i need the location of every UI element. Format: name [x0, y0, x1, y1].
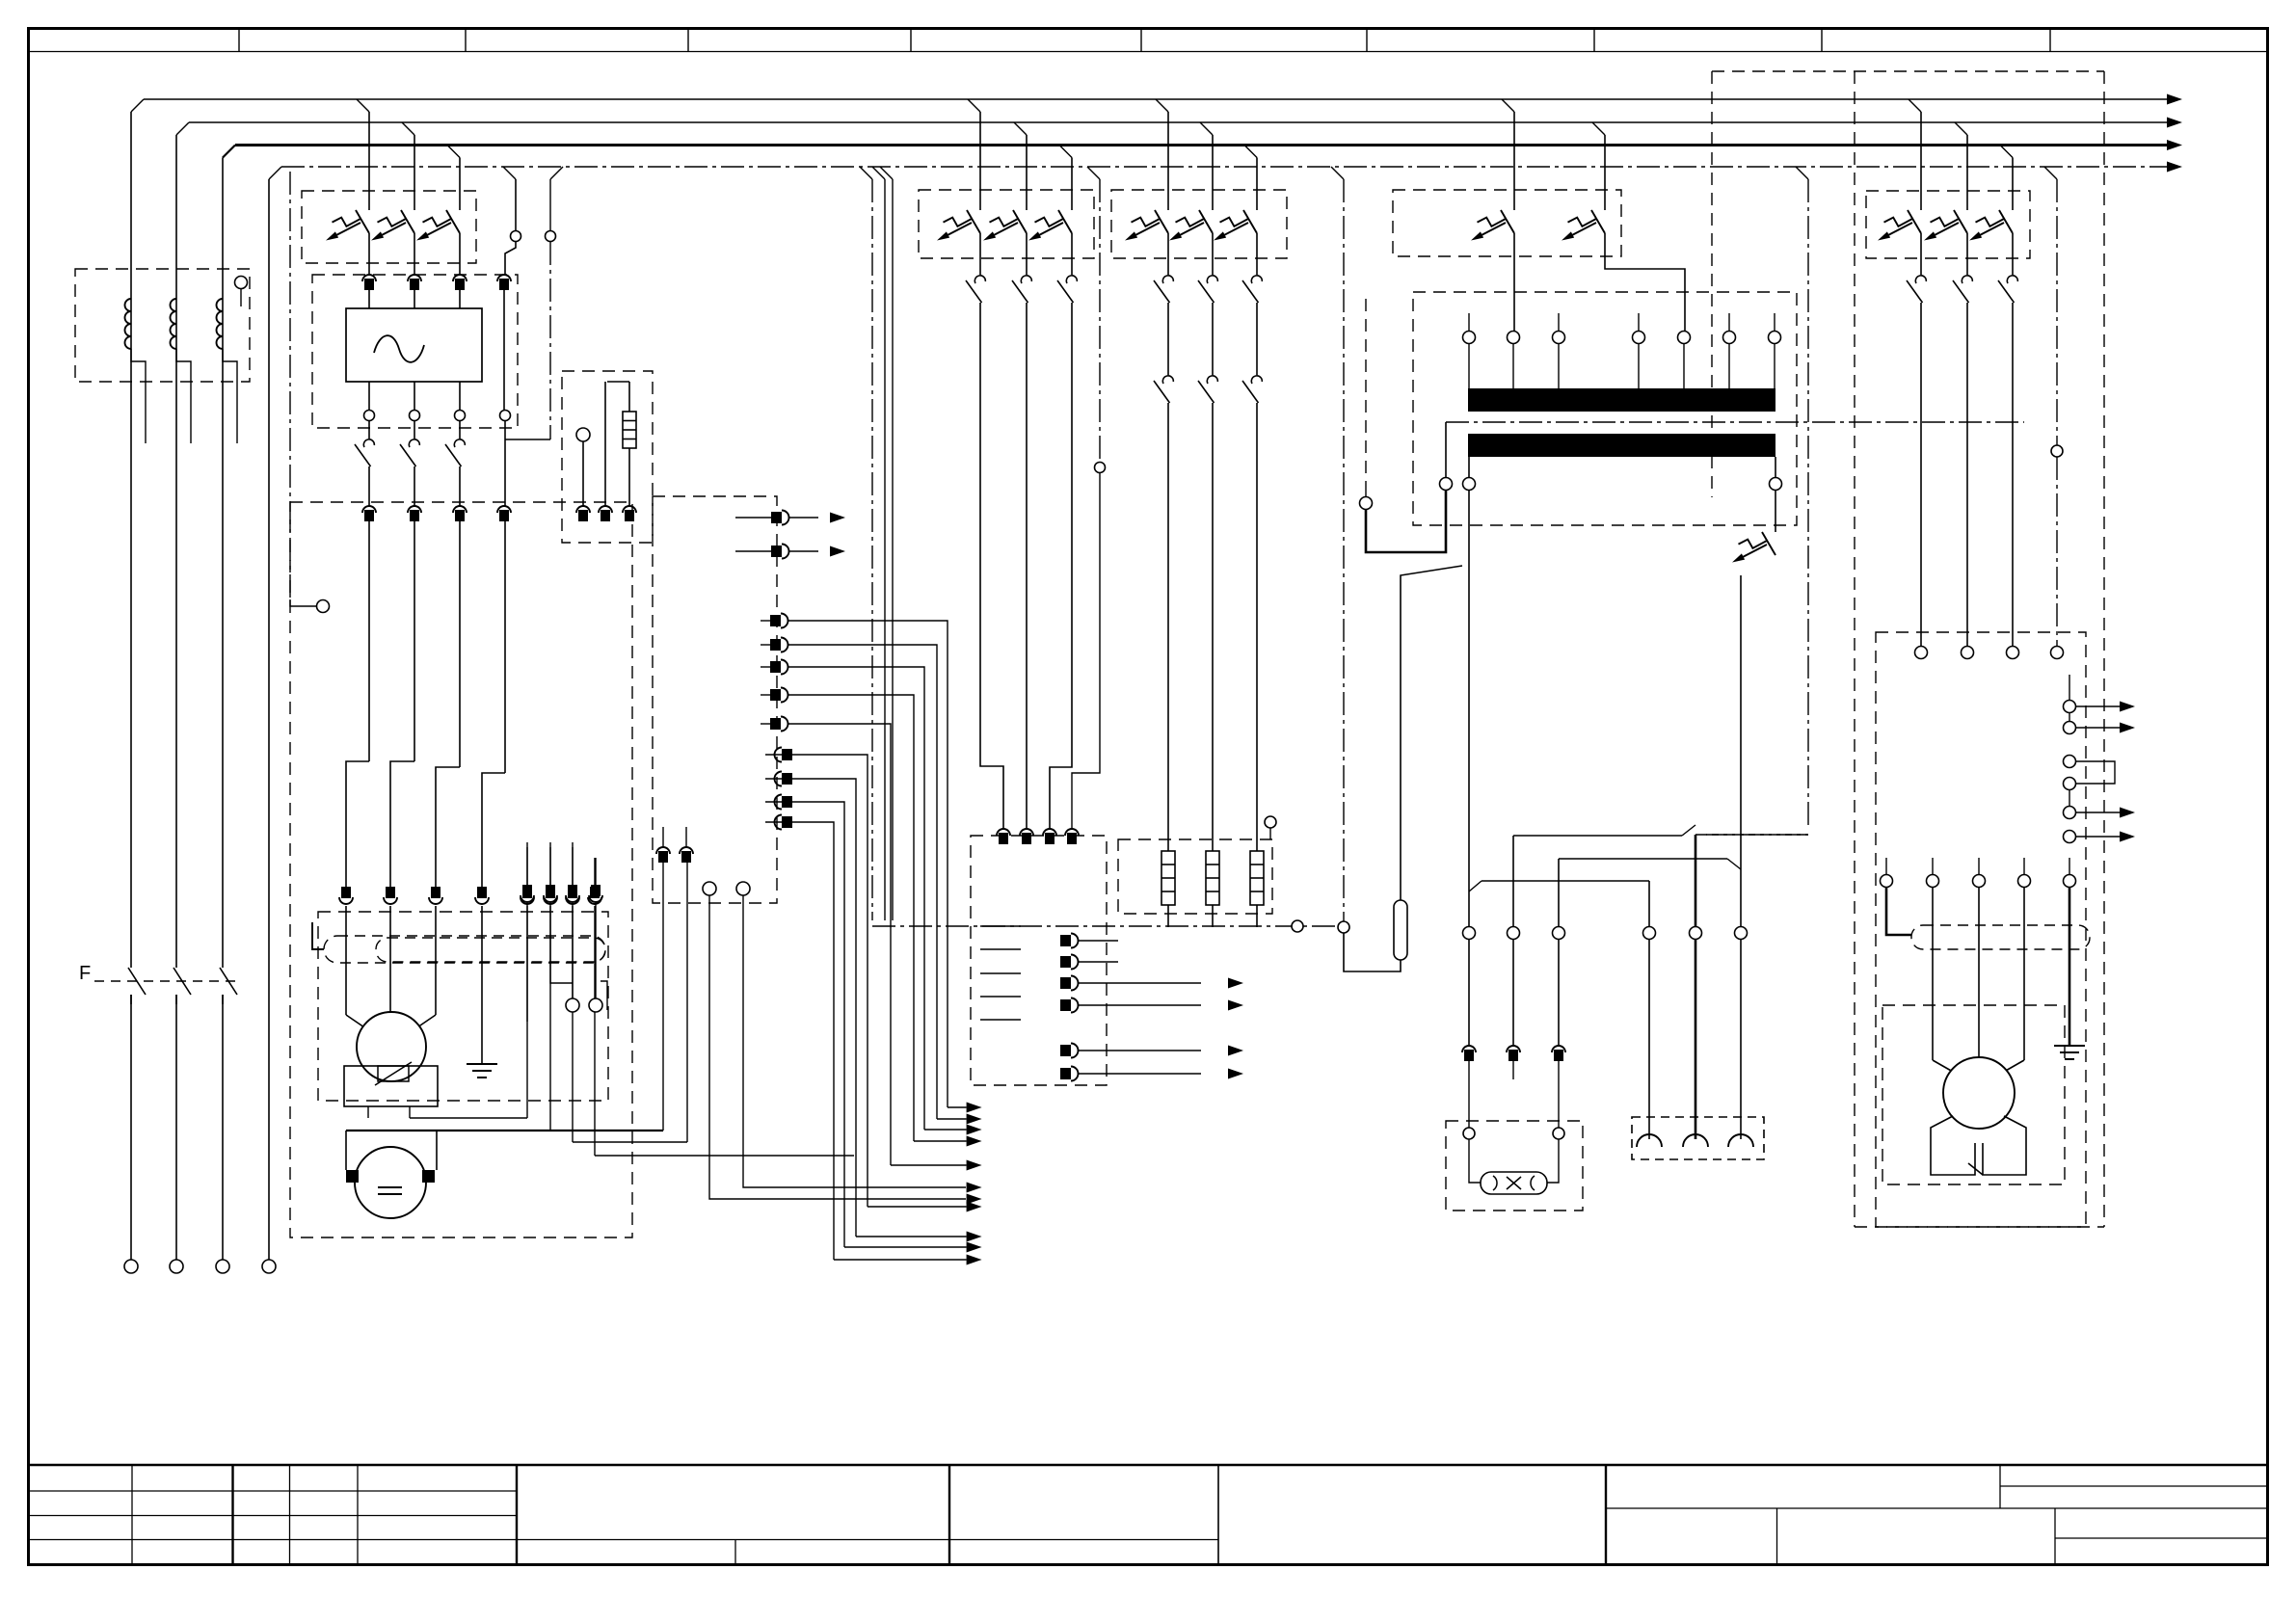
circle x1394	[1338, 921, 1349, 933]
terminal X1-2	[408, 506, 421, 513]
bar circle wire 3	[1558, 344, 1560, 389]
bar circle wire 1	[1468, 344, 1470, 389]
CT secondary wiring	[131, 349, 146, 443]
CT coil TA3	[217, 299, 223, 311]
wire KM1-1 out	[368, 466, 370, 506]
lamp circle R	[1553, 1128, 1564, 1139]
bar circle wire 5	[1683, 344, 1685, 389]
N branch x571 lower	[549, 242, 551, 439]
up terminal D1	[656, 847, 670, 854]
screen capsule 2 (dashed)	[376, 938, 605, 962]
wire KM6-3 down	[2012, 303, 2014, 646]
bundle arrow y1161	[967, 1114, 982, 1125]
long wire 1524	[1468, 491, 1470, 927]
switch F linkage (dashed)	[94, 980, 241, 982]
bar circle 4	[1633, 332, 1645, 344]
wire R2 feed	[1212, 403, 1214, 851]
motor wire 1	[1932, 888, 1934, 1060]
M2 frame wires	[345, 1131, 347, 1170]
wire QF6-2	[1966, 233, 1968, 275]
breaker QF2-2	[1013, 210, 1027, 233]
ctrl out arrow 3	[1228, 978, 1243, 989]
bundle terminal C1	[782, 749, 792, 760]
breaker QF4-2	[1591, 210, 1605, 233]
lamp stub mid	[1512, 1061, 1514, 1079]
wire QF3-2 mid	[1212, 303, 1214, 375]
bundle wire B4	[788, 695, 914, 1141]
terminal XC-2	[599, 506, 612, 513]
wire D1 route	[662, 863, 664, 1131]
centre line x301 (dash-dot)	[289, 172, 291, 599]
wire QF3-2	[1212, 233, 1214, 275]
wire KM2-2 route	[1026, 303, 1028, 829]
DC motor brush right	[422, 1170, 435, 1183]
bar stub 4	[1728, 313, 1730, 331]
bus bar 2 (black)	[1468, 434, 1775, 457]
wire feeder L1 vertical	[130, 112, 132, 968]
wire below F2	[175, 995, 177, 1260]
centre line x1394 dash-dot	[1331, 167, 1344, 179]
circle bar2-right	[1770, 478, 1782, 491]
XD wire 1	[526, 904, 528, 1022]
U1 sine symbol	[374, 335, 424, 362]
wire to ground	[481, 906, 483, 1064]
wire XD-6	[549, 906, 551, 1131]
vfd out circle 2	[1927, 875, 1939, 888]
lower terminal XD-4	[591, 885, 601, 896]
tap L3->QF2	[1059, 146, 1072, 158]
circle row 1617	[1553, 927, 1565, 940]
circle N right	[2051, 445, 2063, 457]
vfd in circle 2	[1962, 647, 1974, 659]
CT group dashed box	[75, 269, 250, 382]
bundle arrow shaft y1161	[937, 1118, 967, 1120]
io inter stubs	[2069, 712, 2070, 722]
bundle terminal C2	[782, 773, 792, 785]
XD circle 4	[589, 998, 602, 1012]
dash-dot y866 right	[1695, 834, 1808, 836]
CT coil TA1	[125, 299, 131, 311]
junction v 1617	[1558, 859, 1560, 927]
wire R3 feed	[1256, 403, 1258, 851]
terminal XC-3	[623, 506, 636, 513]
connector wire 3	[1740, 939, 1742, 1139]
breaker QF4-1	[1501, 210, 1514, 233]
motor terminal 7	[568, 887, 577, 898]
wire U1-3 down	[459, 290, 461, 308]
junction h1	[1513, 835, 1682, 837]
XD wire 3	[572, 904, 574, 998]
bus L2 arrow	[2167, 118, 2182, 128]
bar circle 1	[1463, 332, 1476, 344]
resistor tails	[1167, 905, 1169, 927]
tap L2->QF1	[402, 122, 414, 135]
bundle arrow y1252	[967, 1202, 982, 1212]
terminal X1-1	[362, 506, 376, 513]
bus line L2	[189, 121, 2167, 123]
breaker QF6-3	[1999, 210, 2013, 233]
feeder end circle 4	[262, 1260, 276, 1273]
wire below F1	[130, 995, 132, 1260]
vfd io stub	[2069, 675, 2070, 700]
wire XD-7	[572, 906, 574, 1142]
wire to motor right	[435, 906, 437, 1015]
circle x571	[546, 231, 556, 242]
bundle arrow y1244	[967, 1194, 982, 1205]
lamp leads	[1469, 1139, 1481, 1183]
wire feeder N vertical	[268, 179, 270, 1260]
bundle arrow y1307	[967, 1255, 982, 1265]
DC motor brush left	[346, 1170, 359, 1183]
right outer dashed box	[1712, 70, 2104, 72]
tap N->wire4	[503, 167, 516, 179]
bundle arrow shaft y1307	[834, 1259, 967, 1261]
bundle wire B2	[788, 645, 937, 1119]
wire KM6-2 down	[1966, 303, 1968, 646]
ctrl internal marks	[980, 926, 1021, 1020]
vfd out circle 5	[2064, 875, 2076, 888]
vfd out circle 1	[1881, 875, 1893, 888]
circle U1-3	[455, 411, 466, 421]
tap L2->QF4	[1592, 122, 1605, 135]
motor bay dashed box	[290, 502, 632, 1237]
DC motor symbol	[378, 1186, 402, 1188]
motor wire 3	[2023, 888, 2025, 1060]
circle on link y961	[1292, 920, 1303, 932]
ctrl out arrow 5	[1228, 1046, 1243, 1056]
wire X1-4 down	[504, 521, 506, 773]
wire QF1-1 out	[368, 233, 370, 275]
motor terminal 2	[386, 887, 395, 898]
resistor R1	[1161, 851, 1175, 905]
bar stub 2	[1558, 313, 1560, 331]
circle bar-left	[1440, 478, 1453, 491]
lamp circle L	[1463, 1128, 1475, 1139]
ground symbol PE1	[467, 1063, 497, 1065]
breaker QF1-2	[401, 210, 414, 233]
wire QF4-2 route	[1605, 233, 1685, 331]
switch F blade 1	[128, 968, 146, 995]
breaker QF3-2	[1199, 210, 1213, 233]
bundle arrow shaft y1252	[868, 1206, 967, 1208]
centre line x905 dash-dot	[860, 167, 872, 179]
bundle terminal B3	[770, 661, 781, 673]
circle E2	[736, 882, 750, 895]
contact KM6-1	[1915, 276, 1926, 283]
thermistor box	[344, 1066, 438, 1106]
io circle y733	[2064, 701, 2076, 713]
ctrl terminal 1	[997, 829, 1010, 836]
bar circle wire 4	[1638, 344, 1640, 389]
wire QF5 out	[1740, 575, 1742, 927]
contact KM2-3	[1066, 276, 1077, 283]
ctrl out terminal 5	[1060, 1045, 1071, 1056]
bundle arrow shaft y1184	[914, 1140, 967, 1142]
motor M3 left leg	[1931, 1116, 1975, 1175]
thermistor stubs	[367, 1106, 369, 1118]
circle row 1570	[1508, 927, 1520, 940]
bundle arrow y1172	[967, 1125, 982, 1135]
wire QF3-1	[1167, 233, 1169, 275]
wire X1-2 down	[414, 521, 415, 761]
XD elbow	[601, 981, 607, 1010]
fuse tap diagonal	[1401, 566, 1462, 900]
out terminal A2	[771, 545, 782, 557]
junction h2	[1559, 858, 1727, 860]
io circle y755	[2064, 722, 2076, 734]
QF1 dashed box	[302, 191, 476, 263]
io circle y843	[2064, 807, 2076, 819]
wire QF6-1	[1920, 233, 1922, 275]
motor terminal 3	[431, 887, 441, 898]
tap N right	[2044, 167, 2057, 179]
QF4 dashed box	[1393, 190, 1621, 256]
bar circle 3	[1553, 332, 1565, 344]
wire X1-3 down	[459, 521, 461, 767]
bus line N (dash-dot)	[281, 166, 2167, 168]
right centre line dash-dot	[1796, 167, 1808, 179]
contact KM6-3	[2007, 276, 2017, 283]
connector wire 2	[1695, 939, 1697, 1139]
lamp terminal 2	[1507, 1046, 1520, 1052]
link U path	[1366, 491, 1446, 552]
tap L3->QF3	[1244, 146, 1257, 158]
XD circle 3	[566, 998, 579, 1012]
vfd in circle 3	[2007, 647, 2019, 659]
bundle arrow shaft y1149	[948, 1106, 967, 1108]
io loop	[2076, 761, 2116, 784]
breaker QF1-3	[446, 210, 460, 233]
fuse FU1 wires	[628, 382, 630, 412]
VFD dashed box	[1876, 632, 2086, 1227]
CT coil TA2	[171, 299, 177, 311]
connector arc 1	[1637, 1134, 1662, 1147]
lamp wire 2	[1512, 939, 1514, 1046]
connector arc 2	[1683, 1134, 1708, 1147]
motor terminal 4	[477, 887, 487, 898]
bar circle 2	[1508, 332, 1520, 344]
fuse FU2 tail	[1344, 933, 1401, 971]
breaker QF6-1	[1908, 210, 1921, 233]
tap L2->QF2	[1014, 122, 1027, 135]
motor terminal 8	[590, 887, 600, 898]
QF6 dashed box	[1866, 191, 2030, 258]
wire QF2-3	[1071, 233, 1073, 275]
wire x926	[880, 167, 893, 179]
wire below F3	[222, 995, 224, 1260]
bus line L3 (thick)	[235, 144, 2167, 146]
bundle arrow y1209	[967, 1160, 982, 1171]
motor wire 2	[1978, 888, 1980, 1057]
io arrow y733	[2120, 702, 2135, 712]
thermistor symbol	[378, 1066, 409, 1081]
converter box U1	[346, 308, 482, 382]
ctrl out terminal 6	[1060, 1068, 1071, 1079]
io line y868	[2076, 836, 2121, 838]
circle link U	[1360, 497, 1373, 510]
frame line 2	[573, 1141, 687, 1143]
XD wire 2	[550, 904, 573, 983]
wire N right down	[2056, 457, 2058, 646]
bundle wire C4	[792, 822, 834, 1260]
feeder end circle 1	[124, 1260, 138, 1273]
tap L1->QF6	[1909, 99, 1921, 112]
motor terminal 6	[546, 887, 555, 898]
lamp wire 1	[1468, 939, 1470, 1046]
centre line end circle	[317, 600, 330, 613]
bus L1 arrow	[2167, 94, 2182, 105]
wire D2 route	[686, 863, 688, 1142]
ctrl out terminal 2	[1060, 956, 1071, 968]
bundle terminal C3	[782, 796, 792, 808]
breaker QF3-3	[1243, 210, 1257, 233]
bundle terminal B4	[770, 689, 781, 701]
tap L2->QF3	[1200, 122, 1213, 135]
ctrl out arrow 6	[1228, 1069, 1243, 1079]
io arrow y868	[2120, 832, 2135, 842]
inner motor dashed box	[318, 912, 608, 1101]
wire QF1-3 out	[459, 233, 461, 275]
terminal X1-3	[453, 506, 467, 513]
right dashed v x1776	[1711, 71, 1713, 497]
bar circle wire 7	[1774, 344, 1775, 389]
DC motor M2 circle	[355, 1147, 426, 1218]
controller dashed box	[971, 836, 1107, 1085]
wire KM2-3 route	[1050, 303, 1072, 829]
inner motor dashed box right	[1882, 1005, 2065, 1184]
tap L1->QF1	[357, 99, 369, 112]
circle bar2-left	[1463, 478, 1476, 491]
lamp body	[1481, 1172, 1547, 1194]
bar stub 5	[1774, 313, 1775, 331]
terminal U1-2	[408, 275, 421, 281]
junction h3	[1482, 880, 1649, 882]
io circle y813	[2064, 778, 2076, 790]
terminal X1-4	[497, 506, 511, 513]
wire QF2-2	[1026, 233, 1028, 275]
circle row 1759	[1690, 927, 1702, 940]
wire QF3-3	[1256, 233, 1258, 275]
contact KM1-3	[459, 421, 461, 439]
contact KM2-2	[1021, 276, 1031, 283]
bundle arrow y1283	[967, 1232, 982, 1242]
circle row 1711	[1643, 927, 1656, 940]
bar circle 7	[1769, 332, 1781, 344]
wire to motor mid	[389, 906, 391, 1012]
resistor R3	[1250, 851, 1264, 905]
lower terminal XD-3	[568, 885, 577, 896]
frame line	[346, 1130, 663, 1131]
feeder end circle 3	[216, 1260, 229, 1273]
bundle wire B1	[788, 621, 948, 1107]
terminal U1-4	[497, 275, 511, 281]
fuse loop	[607, 381, 629, 383]
switch F blade 2	[174, 968, 191, 995]
bus bar 1 (black)	[1468, 388, 1775, 412]
motor M3 circle	[1943, 1057, 2015, 1129]
resistor dashed box	[1118, 839, 1272, 914]
bundle terminal C4	[782, 816, 792, 828]
feeder end circle 2	[170, 1260, 183, 1273]
contact KM2-1	[974, 276, 985, 283]
junction v 1570	[1512, 836, 1514, 927]
bundle terminal B1	[770, 615, 781, 626]
breaker QF5	[1762, 532, 1775, 555]
out arrow A1	[830, 513, 845, 523]
wire x918	[872, 167, 885, 179]
lower terminal XD-1	[522, 885, 532, 896]
bus L3 arrow	[2167, 140, 2182, 150]
terminal XC-1	[576, 506, 590, 513]
contact KM6-2	[1962, 276, 1972, 283]
circle x1141	[1095, 463, 1106, 473]
wire QF3-1 mid	[1167, 303, 1169, 375]
ctrl terminal 2	[1020, 829, 1033, 836]
circle near resistor box	[1265, 816, 1276, 828]
bundle wire C2	[792, 779, 856, 1237]
connector arc 3	[1728, 1134, 1753, 1147]
bundle arrow y1184	[967, 1136, 982, 1147]
motor M3 leg notch	[1968, 1163, 1983, 1175]
wire XD-5	[526, 906, 528, 1118]
bar circle 6	[1723, 332, 1736, 344]
soft-starter dashed box	[312, 275, 518, 428]
circle U1-4	[500, 411, 511, 421]
io line y843	[2076, 811, 2121, 813]
wire x1141 route	[1072, 473, 1100, 829]
top margin zone ticks	[239, 29, 2050, 52]
breaker QF3-1	[1155, 210, 1168, 233]
bundle wire C3	[792, 802, 844, 1247]
ctrl out terminal 4	[1060, 999, 1071, 1011]
XD wire 4	[595, 904, 597, 998]
io line y755	[2076, 727, 2121, 729]
wire QF1-2 out	[414, 233, 415, 275]
CT terminal circle	[235, 277, 248, 289]
wire to motor left	[345, 906, 347, 1015]
lamp terminal 1	[1462, 1046, 1476, 1052]
bundle arrow y1149	[967, 1103, 982, 1113]
fuse FU2 body	[1394, 900, 1407, 960]
ctrl out terminal 1	[1060, 935, 1071, 946]
junction v 1711	[1648, 881, 1650, 927]
terminal U1-1	[362, 275, 376, 281]
circle U1-2	[410, 411, 420, 421]
tap N->x1141	[1087, 167, 1100, 179]
wire4 jog	[505, 241, 516, 275]
bundle wire C1	[792, 755, 868, 1207]
dash-dot link y961	[872, 925, 1338, 927]
contact KM4-2	[1207, 376, 1217, 384]
contact KM4-3	[1251, 376, 1262, 384]
bar centre dash-dot	[1446, 421, 2024, 423]
wire X1-1 down	[368, 521, 370, 761]
breaker QF2-1	[967, 210, 980, 233]
wire KM2-1 route	[980, 303, 1003, 829]
screen tail thick	[1886, 888, 1911, 935]
breaker QF5 feed	[1775, 491, 1776, 532]
io circle y790	[2064, 756, 2076, 768]
io line y733	[2076, 705, 2121, 707]
contact KM3-1	[1162, 276, 1173, 283]
motor terminal 1	[341, 887, 351, 898]
top margin strip line	[29, 51, 2268, 53]
lamp wire 3	[1558, 939, 1560, 1046]
up terminal D2	[680, 847, 693, 854]
wire KM6-1 down	[1920, 303, 1922, 646]
bundle wire B5	[788, 724, 891, 1165]
cable screen stadium (dashed)	[324, 936, 605, 963]
